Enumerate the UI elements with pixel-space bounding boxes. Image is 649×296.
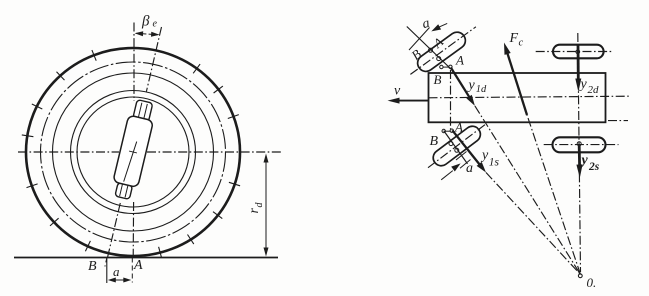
svg-text:A: A [133, 258, 143, 273]
rotated label A [430, 34, 447, 51]
tilted wheel axis line (beta_e) [146, 27, 161, 92]
tick through B lower [456, 152, 467, 161]
force y2d arrow [577, 45, 580, 81]
beta_e dimension arrow [136, 33, 157, 34]
svg-text:A: A [454, 120, 463, 135]
tick through B [409, 28, 430, 51]
svg-text:y: y [467, 78, 476, 93]
svg-text:0.: 0. [587, 275, 597, 290]
dimension a leader (front left) [441, 171, 453, 180]
rim circle 1 [53, 73, 214, 231]
svg-text:1d: 1d [476, 84, 487, 95]
svg-text:2d: 2d [588, 84, 600, 96]
wheel vertical centerline [133, 23, 135, 102]
svg-text:e: e [153, 19, 158, 30]
velocity y1d arrow [451, 68, 470, 99]
svg-text:a: a [421, 16, 431, 32]
B A marks near chassis [442, 129, 445, 132]
y1d line to centre 0 [475, 106, 581, 275]
front axle line [450, 70, 452, 129]
tire outer circle [26, 48, 240, 256]
rotated label B [408, 46, 424, 63]
svg-text:B: B [88, 259, 97, 274]
contact point marks on wheel [429, 48, 433, 52]
svg-text:a: a [113, 264, 120, 279]
dimension a leader [439, 23, 447, 27]
svg-text:B: B [408, 46, 424, 63]
front left wheel axis [428, 124, 486, 168]
contact point marks on wheel [449, 142, 453, 146]
velocity v arrow [398, 100, 429, 102]
velocity y1s arrow [452, 130, 480, 165]
svg-text:v: v [394, 84, 401, 99]
tick through A lower [460, 160, 471, 169]
contact line B-A (front left) [444, 131, 468, 164]
y1s line to centre 0 [486, 173, 581, 275]
rear left wheel [553, 137, 606, 152]
rim circle 3 [77, 97, 189, 207]
label a (front right) [421, 16, 431, 32]
svg-text:y: y [580, 153, 589, 168]
svg-text:d: d [254, 202, 265, 208]
turning centre 0 [578, 274, 582, 278]
svg-text:2s: 2s [588, 161, 600, 173]
svg-text:c: c [519, 38, 524, 49]
dimension a arrow [112, 279, 127, 281]
Fc arrow [507, 52, 527, 115]
rear right wheel axis [536, 51, 614, 53]
front right wheel [414, 29, 468, 75]
svg-text:B: B [434, 72, 442, 87]
chassis centerline [429, 96, 631, 98]
chassis rectangle [429, 73, 606, 122]
ground line [14, 257, 278, 259]
front right wheel axis [410, 27, 476, 75]
rear right wheel [553, 45, 604, 59]
svg-text:1s: 1s [489, 157, 500, 169]
svg-text:y: y [480, 148, 489, 163]
wheel hub roller [110, 98, 158, 200]
svg-text:β: β [141, 14, 150, 30]
wheel centre mark [577, 142, 581, 146]
svg-text:y: y [579, 77, 588, 92]
svg-text:A: A [455, 53, 464, 68]
svg-text:a: a [466, 161, 473, 176]
Fc line dashed part [527, 115, 581, 275]
force y2s arrow [578, 146, 581, 167]
rear left wheel axis [544, 144, 619, 146]
label r_d [247, 202, 265, 214]
front left wheel [430, 123, 484, 169]
tread tick marks on tire [22, 50, 240, 258]
wheel horizontal centerline [18, 151, 119, 153]
small dash right of rear corner [608, 120, 628, 122]
wheel centre mark [576, 50, 580, 54]
B A contact marks at chassis corner [440, 65, 443, 68]
tire inner circle (dash-dot) [41, 62, 226, 242]
svg-text:F: F [509, 31, 519, 46]
rear axle line to centre 0 [578, 33, 581, 272]
rim circle 2 [71, 91, 196, 214]
dimension r_d [265, 157, 267, 254]
extension line through B [106, 258, 108, 284]
svg-text:B: B [430, 134, 439, 149]
contact line B-A [407, 27, 452, 71]
